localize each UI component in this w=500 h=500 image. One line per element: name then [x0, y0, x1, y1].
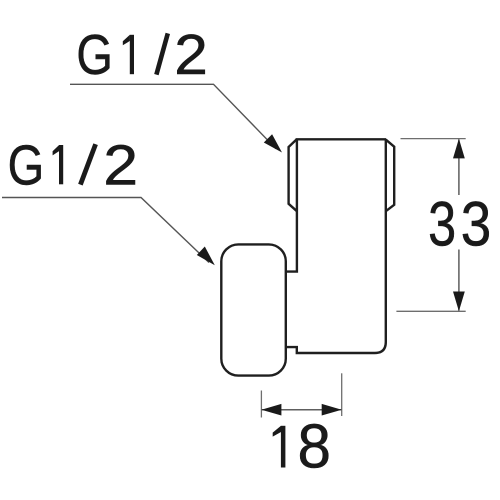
svg-text:2: 2	[103, 133, 138, 197]
arrowhead of top leader	[264, 134, 282, 152]
svg-text:G: G	[76, 24, 113, 87]
extension line right of dim 18	[341, 373, 343, 416]
arrowhead 33 up	[453, 139, 465, 159]
threaded pipe: right chamfer + outer edge + lower taper	[386, 139, 395, 211]
arrowhead 33 down	[453, 292, 465, 312]
leader line to nut	[2, 198, 209, 263]
body outline: left thread-root line, steps to nut, bottom, right side	[286, 139, 386, 353]
dimension line 33 lower segment	[458, 250, 460, 311]
svg-text:G: G	[8, 134, 45, 197]
nut (rounded rectangle)	[221, 244, 285, 375]
arrowhead of nut leader	[197, 247, 215, 266]
slash of left G1/2	[80, 144, 95, 184]
label G1/2 left	[8, 133, 139, 197]
extension line bottom of dim 33	[396, 310, 465, 312]
threaded pipe: left chamfer + outer edge + lower taper	[289, 139, 297, 211]
dimension text 33	[428, 189, 491, 260]
extension line left of dim 18	[260, 391, 262, 418]
label G1/2 top	[76, 24, 208, 88]
threaded pipe: top edge	[296, 138, 386, 140]
svg-text:3: 3	[428, 189, 456, 260]
slash of top G1/2	[156, 33, 167, 74]
dimension line 33 upper segment	[458, 140, 460, 196]
dimension line 18	[261, 409, 341, 411]
svg-text:8: 8	[298, 412, 331, 481]
svg-text:3: 3	[461, 189, 491, 259]
svg-text:2: 2	[174, 24, 208, 87]
leader line to top thread	[70, 84, 276, 148]
arrowhead 18 right	[322, 404, 342, 416]
extension line top of dim 33	[401, 138, 466, 140]
dimension text 18: digit 1 drawn as path (short-flag style)	[281, 426, 286, 468]
arrowhead 18 left	[261, 404, 281, 416]
